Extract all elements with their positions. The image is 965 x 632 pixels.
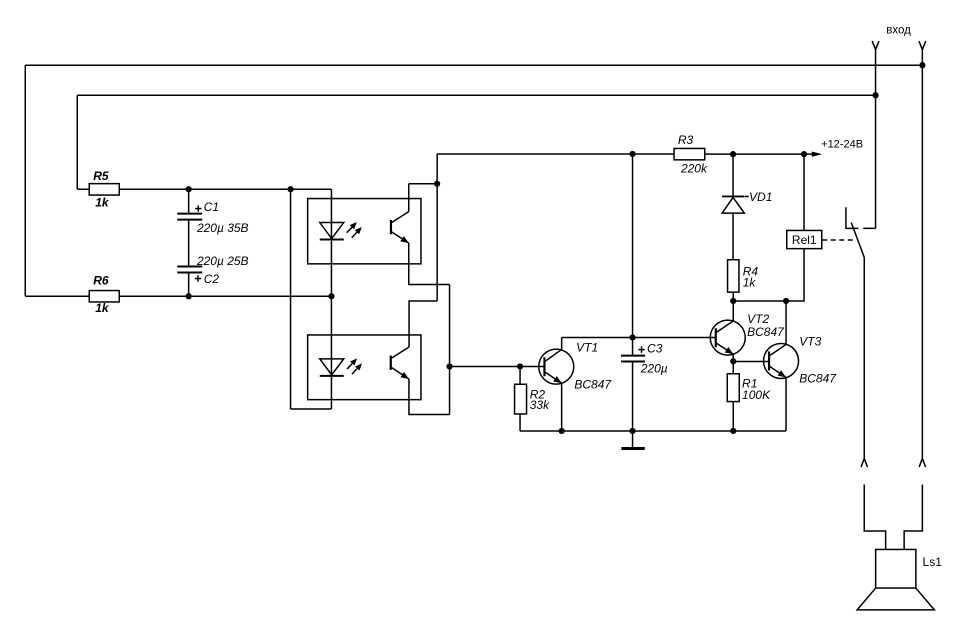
supply arrow +12-24B bbox=[812, 139, 863, 157]
wire C3 column upper bbox=[632, 154, 634, 338]
resistor R6 bbox=[25, 274, 331, 315]
node junction C3 top bbox=[629, 334, 635, 340]
switch arm bbox=[851, 223, 864, 258]
svg-text:BC847: BC847 bbox=[799, 372, 837, 386]
node junction C3 gnd bbox=[629, 428, 635, 434]
LED U2 bbox=[320, 359, 344, 376]
node junction outer top right bbox=[919, 62, 925, 68]
svg-text:R3: R3 bbox=[678, 133, 694, 147]
input terminal right bbox=[919, 41, 926, 458]
wire R4 to Rel1 bottom bbox=[733, 249, 804, 301]
resistor R4 bbox=[728, 260, 759, 301]
node junction R5 to return line bbox=[287, 186, 293, 192]
speaker plug left bbox=[861, 458, 886, 549]
phototransistor U1 bbox=[391, 212, 409, 243]
switch contact right bbox=[863, 227, 875, 229]
svg-text:BC847: BC847 bbox=[574, 377, 612, 391]
resistor R2 bbox=[515, 367, 551, 431]
wire collector rail vertical bbox=[436, 154, 438, 301]
svg-text:1k: 1k bbox=[743, 275, 757, 289]
svg-text:220k: 220k bbox=[680, 161, 708, 175]
loudspeaker Ls1 bbox=[857, 549, 942, 609]
svg-text:C2: C2 bbox=[204, 272, 220, 286]
wire outer top bbox=[25, 64, 922, 66]
node junction C1 top bbox=[186, 186, 192, 192]
LED U1 bbox=[320, 223, 344, 240]
wire to U2 collector bbox=[409, 301, 437, 347]
wire emitter rail vertical bbox=[449, 285, 451, 415]
wire U1 emitter down bbox=[409, 243, 450, 285]
svg-text:33k: 33k bbox=[530, 398, 550, 412]
node junction R4 VT2 collector bbox=[730, 298, 736, 304]
svg-text:1k: 1k bbox=[95, 301, 110, 315]
wire return left vertical bbox=[290, 189, 292, 409]
svg-text:+12-24B: +12-24B bbox=[821, 139, 863, 151]
wire U1 collector to node bbox=[409, 183, 437, 185]
relay Rel1 bbox=[787, 230, 822, 248]
wire inner left bbox=[76, 95, 78, 189]
svg-text:1k: 1k bbox=[95, 195, 110, 209]
svg-text:220µ 35B: 220µ 35B bbox=[196, 221, 249, 235]
svg-text:BC847: BC847 bbox=[747, 325, 785, 339]
light arrows U1 bbox=[347, 222, 362, 238]
node junction C2 bottom bbox=[186, 293, 192, 299]
wire return bottom bbox=[291, 408, 332, 410]
optocoupler U2 box bbox=[308, 335, 421, 400]
svg-text:C3: C3 bbox=[647, 341, 663, 355]
light arrows U2 bbox=[347, 358, 362, 374]
svg-text:VT3: VT3 bbox=[799, 334, 821, 348]
svg-text:вход: вход bbox=[886, 24, 911, 36]
node junction collectors bbox=[434, 181, 440, 187]
wire between C1 and C2 bbox=[188, 221, 190, 266]
svg-text:R5: R5 bbox=[93, 169, 109, 183]
capacitor C2 bbox=[177, 254, 248, 296]
node junction R1 gnd bbox=[730, 428, 736, 434]
capacitor C3 bbox=[621, 337, 668, 431]
wire VT1 collector to VT2 base bbox=[562, 337, 716, 339]
node junction rail to C3 column bbox=[629, 151, 635, 157]
svg-text:Rel1: Rel1 bbox=[792, 233, 817, 247]
wire inner top bbox=[77, 94, 875, 96]
node junction R3 to VD1 bbox=[730, 151, 736, 157]
node junction emitter to VT1 base bbox=[446, 363, 452, 369]
optocoupler U1 box bbox=[308, 199, 421, 264]
wire Rel1 top bbox=[803, 154, 805, 230]
svg-text:220µ: 220µ bbox=[640, 361, 668, 375]
svg-text:C1: C1 bbox=[204, 200, 219, 214]
resistor R1 bbox=[727, 361, 771, 431]
capacitor C1 bbox=[177, 189, 248, 235]
switch contact left bbox=[846, 207, 859, 228]
phototransistor U2 bbox=[391, 347, 409, 379]
dashed link relay to switch bbox=[822, 239, 856, 241]
input terminal left bbox=[872, 41, 879, 228]
resistor R5 bbox=[77, 169, 331, 209]
resistor R3 bbox=[674, 133, 812, 175]
transistor VT2 bbox=[710, 301, 785, 361]
wire switch to speaker bbox=[863, 257, 865, 458]
svg-text:R6: R6 bbox=[93, 274, 109, 288]
wire outer left bbox=[24, 65, 26, 296]
svg-text:VT1: VT1 bbox=[576, 340, 598, 354]
node junction VT3 collector bbox=[783, 298, 789, 304]
svg-text:220µ 25B: 220µ 25B bbox=[196, 254, 249, 268]
diode VD1 bbox=[722, 154, 772, 260]
speaker plug right bbox=[904, 458, 925, 549]
svg-text:Ls1: Ls1 bbox=[923, 555, 943, 569]
wire U1 collector up bbox=[408, 184, 410, 212]
transistor VT1 bbox=[539, 338, 613, 431]
node junction VT2 emitter VT3 base bbox=[730, 358, 736, 364]
svg-text:VD1: VD1 bbox=[749, 190, 772, 204]
ground bus bbox=[520, 430, 786, 432]
node junction inner top right bbox=[872, 92, 878, 98]
wire LED column bbox=[330, 189, 332, 409]
wire collector rail top bbox=[437, 153, 674, 155]
node junction VT1 emitter gnd bbox=[559, 428, 565, 434]
node junction R6 to LED column bbox=[328, 293, 334, 299]
ground symbol bbox=[621, 431, 644, 449]
wire VT1 base bbox=[450, 366, 545, 368]
wire U2 emitter bottom bbox=[409, 379, 450, 415]
transistor VT3 bbox=[764, 301, 838, 431]
svg-text:100K: 100K bbox=[742, 388, 771, 402]
node junction R2 top bbox=[517, 363, 523, 369]
wire VT2 emitter to VT3 base bbox=[733, 360, 769, 362]
node junction supply to Rel1 bbox=[801, 151, 807, 157]
